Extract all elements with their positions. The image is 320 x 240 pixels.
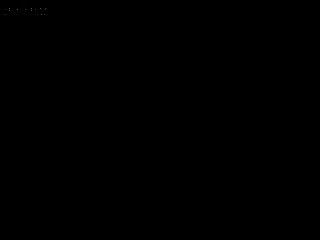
light I2 dim navy bbox=[45, 9, 46, 10]
light B brown bbox=[9, 10, 10, 11]
light E brown bbox=[31, 8, 32, 9]
light D navy bbox=[25, 9, 26, 10]
light G navy bbox=[35, 9, 36, 10]
light L navy bbox=[44, 14, 45, 15]
light K brown bbox=[41, 14, 42, 15]
light A violet bbox=[9, 8, 10, 9]
light H brown bbox=[40, 8, 41, 9]
light J dim navy bbox=[37, 14, 38, 15]
light F brown bbox=[31, 10, 32, 11]
light C brown bbox=[17, 9, 18, 10]
light N dim navy bbox=[6, 14, 7, 15]
background bbox=[0, 0, 49, 19]
light M dark red bbox=[4, 14, 5, 15]
light I navy bbox=[45, 8, 46, 9]
light A2 faint violet bbox=[6, 9, 7, 10]
